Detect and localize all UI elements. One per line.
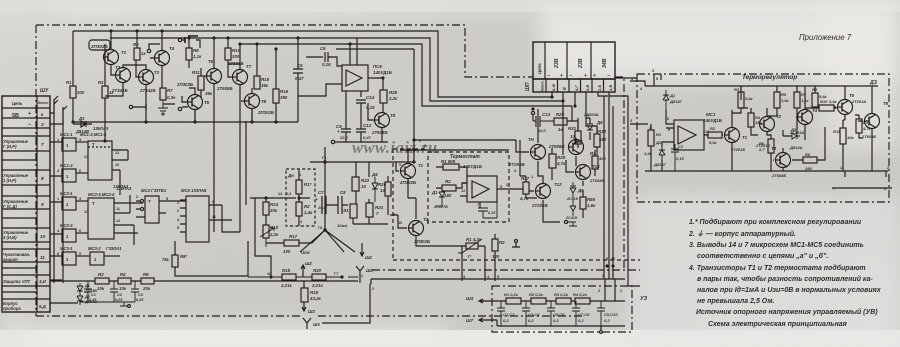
svg-text:2Т201Б: 2Т201Б: [730, 147, 745, 152]
svg-text:3: 3: [652, 69, 654, 73]
svg-text:10: 10: [115, 163, 119, 167]
svg-text:8: 8: [41, 176, 44, 182]
diode D7: [570, 198, 576, 216]
svg-text:+: +: [315, 197, 318, 202]
resistor R19: [301, 288, 308, 302]
svg-text:Ш7: Ш7: [466, 318, 473, 323]
wire sh4 drop: [322, 277, 371, 323]
svg-text:3: 3: [79, 138, 81, 142]
svg-text:С9,С10: С9,С10: [604, 312, 618, 317]
wire third bus: [240, 44, 575, 121]
svg-text:10: 10: [361, 184, 366, 189]
shield dash-dot line lower right: [372, 269, 640, 271]
svg-text:0,2: 0,2: [528, 318, 534, 323]
svg-text:18: 18: [267, 272, 271, 276]
capacitor C9 electrolytic: [341, 122, 351, 142]
svg-text:R1: R1: [66, 80, 72, 85]
svg-text:R34: R34: [590, 151, 599, 156]
svg-text:2,2к: 2,2к: [388, 96, 398, 101]
svg-text:Д1: Д1: [669, 93, 676, 98]
svg-text:R1 909: R1 909: [441, 159, 456, 164]
svg-text:2Т342Б: 2Т342Б: [139, 88, 156, 93]
transistor T5 termo: [838, 100, 853, 115]
svg-text:10к: 10к: [119, 286, 127, 291]
svg-text:100: 100: [283, 249, 291, 254]
svg-text:5: 5: [166, 197, 168, 201]
svg-text:Д818Г: Д818Г: [653, 162, 667, 167]
svg-text:12: 12: [116, 219, 120, 223]
diode D3 termo: [790, 133, 800, 139]
svg-text:Д6: Д6: [596, 120, 603, 125]
termo bottom rail: [645, 171, 892, 188]
Sh2 up arrow: [301, 265, 305, 277]
svg-text:Ш2: Ш2: [305, 261, 312, 266]
svg-text:ШУ: ШУ: [40, 88, 49, 94]
svg-text:2Т203А: 2Т203А: [851, 99, 866, 104]
transistor T1 FET: [401, 164, 416, 179]
svg-text:2П302Б: 2П302Б: [90, 44, 109, 49]
svg-text:Uоп: Uоп: [301, 250, 310, 255]
svg-text:МС5 133ЛА8: МС5 133ЛА8: [181, 188, 207, 193]
svg-text:Т14: Т14: [592, 164, 600, 169]
svg-text:Т8: Т8: [390, 113, 396, 118]
svg-text:R31: R31: [568, 126, 577, 131]
svg-text:Т: Т: [92, 142, 95, 147]
svg-text:5: 5: [177, 226, 179, 230]
svg-text:9: 9: [41, 202, 44, 208]
svg-text:Терморегулятор: Терморегулятор: [742, 74, 797, 81]
op-amp MC6 box: [342, 65, 368, 91]
transistor T6 termo: [865, 114, 880, 129]
svg-text:4. Транзисторы Т1 и Т2 термост: 4. Транзисторы Т1 и Т2 термостата подбир…: [688, 264, 866, 272]
thermistor R1: [466, 243, 478, 249]
terminal test point: [515, 240, 518, 243]
Dn dashed box: [286, 169, 315, 226]
svg-text:R1 4,2к: R1 4,2к: [466, 237, 482, 242]
svg-text:R27: R27: [521, 176, 530, 181]
svg-text:Т2: Т2: [115, 65, 121, 70]
wire T1 T2 chain: [390, 198, 416, 215]
resistor R8 75k: [172, 255, 178, 267]
svg-text:прибора: прибора: [3, 306, 21, 311]
svg-text:Д4: Д4: [371, 172, 378, 177]
resistor R5 1k: [134, 48, 140, 60]
outer dash-dot frame top edge: [36, 25, 533, 77]
svg-text:−: −: [547, 73, 550, 79]
resistor R6 termo: [768, 139, 774, 153]
svg-text:0,25: 0,25: [89, 298, 97, 302]
svg-text:3,6к: 3,6к: [745, 96, 754, 101]
svg-text:R10: R10: [820, 99, 828, 104]
ShP table stubs down: [586, 92, 609, 134]
svg-text:10мА: 10мА: [337, 223, 347, 228]
wire main top bus 31: [73, 31, 552, 97]
svg-text:в пары так, чтобы разность соп: в пары так, чтобы разность сопротивлений…: [697, 275, 873, 283]
svg-text:Т1: Т1: [418, 163, 424, 168]
svg-text:Г7: Г7: [334, 272, 338, 276]
svg-text:3: 3: [79, 197, 81, 201]
MC2-1 gate: [62, 197, 76, 210]
svg-text:R15: R15: [270, 225, 279, 230]
svg-text:0,2: 0,2: [604, 318, 610, 323]
transistor T8: [245, 94, 260, 109]
svg-text:1к: 1к: [141, 51, 146, 56]
svg-text:120: 120: [492, 254, 500, 259]
svg-text:ШП: ШП: [525, 82, 531, 91]
svg-text:0,2: 0,2: [553, 318, 559, 323]
svg-text:6: 6: [602, 274, 604, 278]
resistor R15 trim: [263, 225, 269, 238]
svg-text:−: −: [569, 73, 572, 79]
resistor R9 termo: [812, 93, 818, 107]
MC2-3 gate: [62, 229, 76, 242]
svg-text:R4 0,2к: R4 0,2к: [573, 292, 588, 297]
svg-text:Т: Т: [148, 199, 151, 204]
Termostat dashed box: [428, 152, 509, 222]
svg-text:7: 7: [612, 274, 614, 278]
resistor R1* in Dn: [296, 180, 302, 194]
svg-text:2Т203Б: 2Т203Б: [531, 203, 548, 208]
svg-text:ПС6: ПС6: [373, 64, 382, 69]
outer dash-dot frame left edge: [35, 25, 37, 316]
svg-text:5: 5: [656, 77, 658, 81]
svg-text:3,В: 3,В: [585, 85, 590, 91]
svg-text:R11: R11: [833, 129, 841, 134]
outer dash-dot frame bottom edge left part: [36, 315, 300, 317]
MC1-3 MC1-4 trigger box: [88, 141, 112, 180]
bottom wires T-block: [73, 64, 298, 122]
svg-text:1: 1: [57, 138, 59, 142]
svg-text:0,25: 0,25: [115, 298, 123, 302]
transistor TN: [531, 145, 546, 160]
svg-text:4,7к: 4,7к: [556, 161, 566, 166]
resistor R2 120: [492, 239, 498, 251]
transistor T2 termo: [760, 117, 775, 132]
svg-text:11: 11: [212, 215, 216, 219]
svg-text:МС3-2: МС3-2: [88, 246, 101, 251]
resistor R16: [273, 89, 279, 103]
svg-text:1.* Подбирают при комплексном: 1.* Подбирают при комплексном регулирова…: [689, 218, 862, 226]
svg-text:8: 8: [212, 200, 214, 204]
svg-text:R8: R8: [805, 152, 811, 157]
svg-text:R12: R12: [863, 120, 871, 125]
svg-text:4,Г: 4,Г: [574, 85, 579, 92]
svg-text:налов при Iд=1мА и Uзи=0В в но: налов при Iд=1мА и Uзи=0В в нормальных у…: [697, 286, 882, 294]
svg-text:6,Ж: 6,Ж: [551, 84, 556, 91]
resistor R22: [352, 177, 359, 191]
resistor R11: [198, 76, 204, 90]
wire D1 down: [666, 110, 674, 124]
svg-text:МС2-3: МС2-3: [60, 223, 73, 228]
svg-text:36к: 36к: [261, 83, 269, 88]
svg-text:11: 11: [40, 255, 45, 261]
resistor R12 termo: [856, 119, 862, 133]
svg-text:R1*: R1*: [304, 182, 312, 187]
wire bus branch 140b: [413, 49, 415, 140]
svg-text:20к: 20к: [269, 208, 278, 213]
svg-text:С1: С1: [678, 144, 684, 149]
svg-text:0,15: 0,15: [488, 211, 496, 215]
svg-text:Г6: Г6: [318, 226, 322, 230]
wire bus branch 155: [404, 161, 414, 163]
transistor T2: [116, 68, 131, 83]
svg-text:R6: R6: [759, 141, 765, 146]
svg-text:3,6к: 3,6к: [829, 99, 838, 104]
resistor R9: [186, 48, 192, 60]
transistor T13: [569, 140, 584, 155]
svg-text:R10: R10: [232, 48, 241, 53]
svg-text:защит: защит: [3, 257, 18, 262]
MC2-3 MC2-4 trigger box: [88, 198, 114, 239]
resistor R2 in Dn: [296, 202, 302, 216]
svg-text:3 (И,В): 3 (И,В): [3, 235, 17, 240]
svg-text:R28: R28: [557, 155, 566, 160]
resistor R32: [594, 134, 600, 147]
svg-text:R11: R11: [192, 70, 200, 75]
capacitor C12: [356, 122, 366, 142]
svg-text:Г33ЛА1: Г33ЛА1: [106, 246, 122, 251]
capacitor C1 bottom: [84, 281, 92, 302]
resistor R4 termo: [748, 113, 754, 127]
UZ ladder top wire: [480, 300, 625, 302]
resistor R5 termo: [774, 92, 780, 108]
svg-text:С8: С8: [340, 190, 346, 195]
svg-text:2: 2: [887, 166, 889, 170]
svg-text:Цепь: Цепь: [537, 63, 542, 74]
UZ arrow Sh4: [479, 299, 484, 303]
svg-text:R26: R26: [378, 182, 387, 187]
svg-text:13: 13: [84, 155, 88, 159]
svg-text:5В: 5В: [12, 113, 19, 119]
svg-text:1,0к: 1,0к: [644, 151, 653, 156]
MC3-1 gate: [62, 252, 76, 265]
svg-text:7: 7: [41, 142, 44, 148]
svg-text:Конт.: Конт.: [38, 101, 49, 105]
svg-text:2,21к: 2,21к: [280, 283, 293, 288]
svg-text:390: 390: [805, 166, 812, 171]
svg-text:2Д503А: 2Д503А: [583, 112, 599, 117]
gate bubbles MC4 input: [140, 199, 143, 202]
svg-text:Г (С,Д): Г (С,Д): [3, 204, 17, 209]
svg-text:С1,С2: С1,С2: [503, 312, 515, 317]
R18 R20 line: [248, 276, 358, 278]
UZ bottom wire: [497, 326, 625, 330]
svg-text:R29: R29: [556, 112, 565, 117]
svg-text:43,2к: 43,2к: [309, 296, 322, 301]
ground under R7: [158, 108, 168, 114]
svg-text:Г (И,Р): Г (И,Р): [3, 144, 17, 149]
svg-text:Т6: Т6: [883, 101, 889, 106]
svg-text:2Т608Б: 2Т608Б: [216, 86, 233, 91]
svg-text:8: 8: [427, 221, 429, 225]
svg-text:R16: R16: [280, 89, 289, 94]
MC1-1 gate: [62, 138, 76, 151]
capacitor C14: [356, 100, 366, 122]
svg-text:6: 6: [79, 169, 81, 173]
svg-text:Т: Т: [92, 201, 95, 206]
svg-text:Д2: Д2: [655, 140, 662, 145]
terminal top cap: [178, 38, 181, 41]
Sh4 shield Y: [356, 266, 364, 277]
svg-text:С5,С6: С5,С6: [553, 312, 565, 317]
resistor R24: [366, 203, 373, 217]
svg-text:R14: R14: [270, 202, 279, 207]
svg-text:1 (И,Р): 1 (И,Р): [3, 178, 17, 183]
svg-text:Д814А: Д814А: [789, 145, 803, 150]
outer dashed enclosure: [393, 149, 640, 260]
svg-text:R9: R9: [812, 87, 818, 92]
svg-text:140УД1Б: 140УД1Б: [463, 164, 482, 169]
svg-text:7: 7: [393, 213, 395, 217]
svg-text:R7: R7: [801, 92, 807, 97]
ground terminal bottom: [564, 220, 567, 223]
svg-text:2Т608Б: 2Т608Б: [548, 144, 565, 149]
svg-text:Ш4: Ш4: [366, 268, 373, 273]
svg-text:2С107Б: 2С107Б: [433, 205, 448, 209]
resistor R15: [254, 76, 260, 89]
ground bottom chain: [80, 302, 135, 306]
svg-text:2: 2: [372, 287, 374, 291]
transistor T2 FET: [409, 221, 424, 236]
svg-text:2П302Б: 2П302Б: [257, 110, 274, 115]
resistor R10: [225, 48, 231, 60]
type label box 2P302B: [89, 40, 110, 50]
diode D5: [570, 185, 576, 187]
svg-text:МС3-1: МС3-1: [60, 246, 73, 251]
svg-text:С1: С1: [91, 293, 96, 297]
svg-text:Д818Г: Д818Г: [669, 99, 683, 104]
resistor R4 bottom: [118, 278, 131, 284]
svg-text:13: 13: [84, 210, 88, 214]
Sh3 Y symbol below border: [303, 318, 311, 329]
svg-text:−: −: [607, 73, 610, 79]
svg-text:2Т608Б: 2Т608Б: [371, 130, 388, 135]
svg-text:2: 2: [506, 183, 508, 187]
transistor T4: [155, 51, 170, 66]
svg-text:2: 2: [136, 195, 138, 199]
svg-text:Т12: Т12: [554, 182, 562, 187]
cap C1 termostat: [478, 202, 497, 218]
resistor R34: [592, 156, 598, 169]
termo left entries: [630, 74, 661, 124]
wires bottom chain: [50, 280, 358, 282]
svg-text:Ш4: Ш4: [365, 255, 372, 260]
svg-text:R3: R3: [98, 80, 104, 85]
svg-text:Т13: Т13: [575, 139, 583, 144]
capacitor bar top: [185, 36, 198, 43]
svg-text:400: 400: [598, 156, 606, 161]
svg-text:R15: R15: [261, 77, 270, 82]
svg-text:Д1: Д1: [431, 190, 438, 195]
Sh4 down arrow: [360, 243, 364, 256]
svg-text:1: 1: [299, 173, 301, 177]
svg-text:10: 10: [380, 188, 385, 193]
UZ caps: [497, 301, 505, 326]
svg-text:t°: t°: [468, 254, 471, 259]
svg-text:15к: 15к: [755, 120, 762, 125]
svg-text:2Т203А: 2Т203А: [789, 130, 804, 135]
svg-text:МС2-1: МС2-1: [60, 191, 73, 196]
svg-text:0,25: 0,25: [136, 298, 144, 302]
svg-text:R4: R4: [120, 272, 126, 277]
resistor R35: [580, 197, 586, 209]
svg-text:R2: R2: [445, 179, 451, 184]
right bus verticals: [520, 96, 613, 279]
svg-text:R3 0,2к: R3 0,2к: [554, 292, 569, 297]
svg-text:0,47: 0,47: [295, 76, 304, 81]
svg-text:R22: R22: [361, 178, 370, 183]
junction dots bus: [110, 30, 112, 32]
svg-text:2П302Б: 2П302Б: [413, 239, 430, 244]
svg-text:300: 300: [232, 54, 240, 59]
svg-text:160: 160: [444, 193, 452, 198]
svg-text:1к: 1к: [558, 127, 563, 132]
svg-text:1,6к: 1,6к: [781, 98, 790, 103]
svg-text:2С119: 2С119: [565, 216, 578, 220]
svg-text:С7,С8: С7,С8: [578, 312, 590, 317]
svg-text:соответственно с цепями „а" и: соответственно с цепями „а" и „б".: [697, 252, 828, 260]
svg-text:+: +: [593, 73, 596, 79]
svg-text:С5: С5: [297, 63, 303, 68]
transistor T1 termo: [725, 128, 740, 143]
op-amp termostat: [467, 176, 497, 202]
svg-text:0,2: 0,2: [578, 318, 584, 323]
svg-text:+: +: [560, 73, 563, 79]
resistor R1 909: [443, 164, 459, 170]
transistor T3 termo: [776, 153, 791, 168]
svg-text:2,21к: 2,21к: [311, 283, 324, 288]
svg-text:0,15: 0,15: [366, 105, 375, 110]
opamp MC1 termo: [674, 120, 704, 150]
junction dots bottom: [270, 276, 272, 278]
svg-text:12: 12: [461, 189, 465, 193]
svg-text:R18: R18: [282, 268, 291, 273]
transistor T5: [188, 95, 203, 110]
svg-text:9: 9: [606, 257, 608, 261]
capacitor C8: [334, 196, 348, 214]
svg-text:3: 3: [630, 119, 632, 123]
capacitor C6: [306, 52, 342, 66]
left table row lines: [2, 108, 50, 299]
ShP connector table: [533, 42, 615, 79]
svg-text:560: 560: [599, 137, 607, 142]
svg-text:10: 10: [398, 221, 402, 225]
svg-text:УЗ: УЗ: [640, 296, 648, 302]
svg-text:2Т608Б: 2Т608Б: [227, 61, 244, 66]
svg-text:2: 2: [598, 289, 600, 293]
svg-text:R2: R2: [710, 126, 716, 131]
svg-text:МС2-3,МС2-4: МС2-3,МС2-4: [88, 192, 115, 197]
svg-text:1,1к: 1,1к: [801, 98, 810, 103]
resistor R8 termo: [803, 157, 817, 163]
resistor R3: [102, 86, 108, 98]
svg-text:5: 5: [497, 275, 499, 279]
termo bottom pins: [845, 171, 886, 177]
transistor T12: [536, 184, 551, 199]
svg-text:R7: R7: [167, 88, 173, 93]
svg-text:2: 2: [40, 122, 44, 128]
svg-text:Э1: Э1: [343, 208, 349, 213]
svg-text:Т1: Т1: [742, 135, 748, 140]
svg-text:0,3к: 0,3к: [167, 95, 176, 100]
svg-text:2Т342Б: 2Т342Б: [111, 88, 128, 93]
left table outline: [2, 96, 50, 312]
ShP table bottom contact row: [533, 79, 615, 92]
svg-text:5,6к: 5,6к: [709, 140, 718, 145]
svg-text:R2: R2: [304, 204, 310, 209]
svg-text:2. ⏚ — корпус аппаратурный.: 2. ⏚ — корпус аппаратурный.: [688, 230, 796, 238]
svg-text:ТН: ТН: [528, 137, 535, 142]
